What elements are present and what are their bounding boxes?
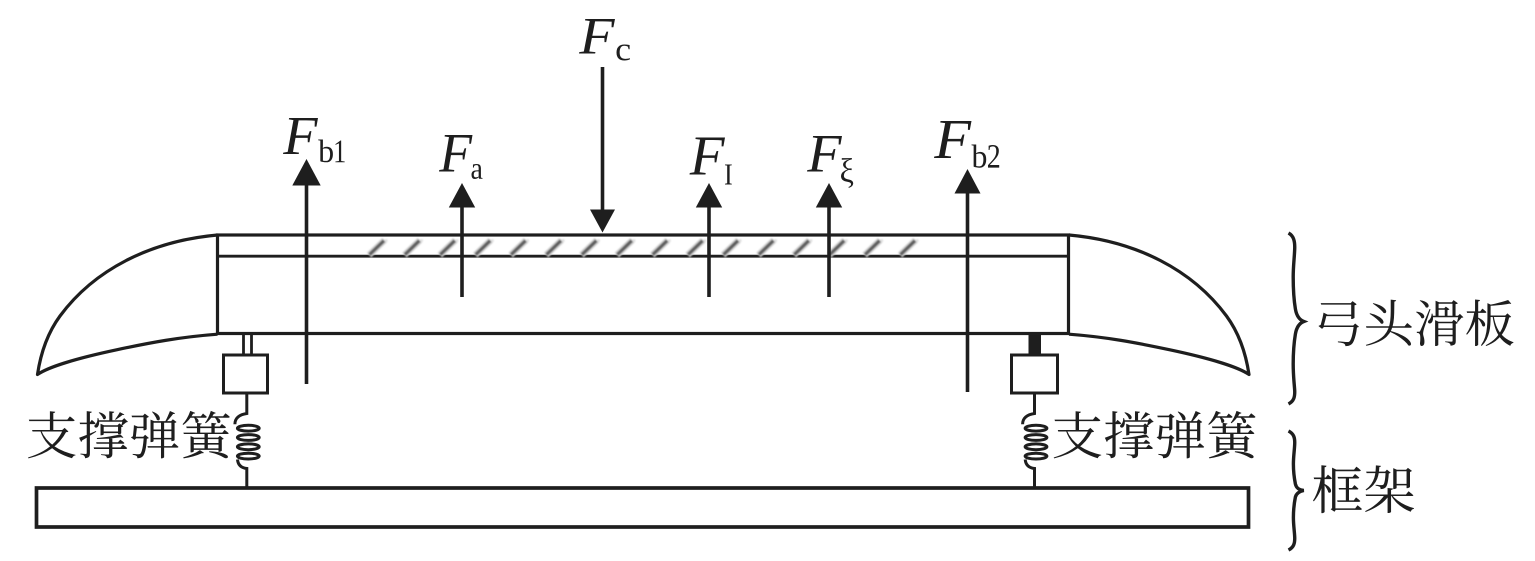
label Fa: [439, 135, 482, 179]
brace for frame: [1289, 431, 1304, 550]
label Fc: [579, 19, 630, 61]
slide plate inner strip line: [218, 255, 1069, 258]
left support box: [224, 355, 268, 393]
hatched carbon strip: [369, 240, 919, 255]
frame bar: [37, 488, 1249, 527]
brace for bow head slide plate: [1289, 233, 1304, 404]
label left spring 支撑弹簧: [28, 411, 230, 458]
force Fb1 arrow (upward): [292, 159, 320, 384]
force Fb2 arrow (upward): [955, 169, 981, 392]
left support spring: [235, 392, 259, 489]
right horn: [1069, 235, 1249, 375]
force FI arrow (upward): [696, 183, 722, 297]
left support stem (double line): [244, 334, 252, 356]
right support stem (solid): [1029, 333, 1042, 356]
force Fc arrow (contact force, downward): [590, 67, 615, 233]
label 弓头滑板 (bow head slide plate): [1318, 299, 1513, 346]
right support box: [1012, 355, 1058, 393]
right support spring: [1023, 392, 1047, 489]
force Fa arrow (upward): [449, 183, 475, 297]
label right spring 支撑弹簧: [1054, 411, 1256, 458]
left horn: [38, 235, 218, 375]
label Fb2: [934, 121, 999, 168]
label Fxi: [807, 136, 853, 188]
slide plate body: [218, 235, 1069, 334]
force Fxi arrow (upward): [816, 183, 842, 297]
label Fb1: [283, 118, 345, 162]
label FI: [690, 138, 732, 185]
label 框架 (frame): [1313, 465, 1414, 513]
